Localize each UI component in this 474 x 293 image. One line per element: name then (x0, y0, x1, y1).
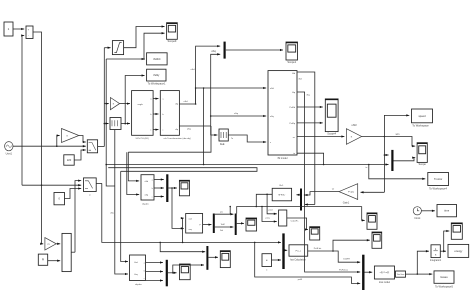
junction speed ref (41, 184, 43, 186)
wire wr output to gain uSM (297, 136, 344, 138)
svg-text:c: c (150, 130, 151, 132)
wire uSd branch up to mux (196, 46, 221, 104)
scope psi (246, 218, 257, 231)
svg-text:Usq: Usq (134, 274, 138, 276)
block energy (448, 244, 469, 257)
svg-text:a: a (144, 263, 145, 265)
svg-text:u[1]^2+u[2]: u[1]^2+u[2] (380, 271, 390, 274)
svg-text:s: s (270, 142, 271, 144)
wires PLL to abc-dq (153, 98, 158, 100)
bundle vertical a (103, 48, 105, 147)
wire 0 to switch2 in3 (65, 189, 82, 199)
subsystem IM model (268, 71, 297, 155)
wire PI gain to relay (56, 243, 60, 245)
wire in2 dq-abc1 (127, 152, 139, 194)
wires demux to mux psi (215, 213, 234, 215)
svg-text:PI: PI (42, 259, 45, 262)
block constant 0 (54, 193, 65, 205)
wire branch down from mux out (172, 188, 184, 228)
svg-text:b: b (152, 188, 153, 190)
wire up to scope8 (444, 231, 450, 251)
wire sum output down to PI gain (33, 32, 43, 244)
wire switch1 out to bundle (98, 146, 105, 148)
gain before PLL (110, 98, 119, 110)
wire psi long line to scope6 (362, 207, 365, 221)
svg-text:wm: wm (396, 133, 400, 136)
sine source Uset (5, 142, 13, 151)
demux psi (213, 214, 215, 234)
block dq-abc 1 (141, 175, 154, 200)
svg-text:a-b Transformation (abc-dq): a-b Transformation (abc-dq) (164, 137, 191, 140)
scope Scope6 (367, 213, 377, 229)
scope Scope7 (372, 232, 382, 248)
relay tall block (62, 233, 71, 271)
svg-text:time: time (444, 209, 449, 213)
svg-text:usq: usq (189, 229, 192, 231)
wire mux to Scope1 (226, 49, 283, 51)
scope Scope1 (286, 42, 298, 64)
to-workspace block thdiiy (147, 69, 166, 81)
svg-text:DisRH: DisRH (343, 258, 350, 260)
wire source to switch1 (13, 145, 86, 147)
svg-text:To Workspace1: To Workspace1 (148, 82, 166, 86)
wire wm into mux2r (384, 154, 388, 156)
svg-text:uSM: uSM (352, 124, 357, 127)
wire mux out to scope mid (168, 187, 177, 189)
svg-text:angle: angle (138, 104, 144, 106)
wire bold flux into mux (102, 183, 281, 242)
wire iSq down to loss mux in2 (305, 195, 361, 272)
scope Scope9 (167, 23, 178, 43)
tag Total loss (396, 271, 406, 277)
wire mux to loss model (365, 271, 373, 273)
wires dq-abc2 to mux (146, 262, 163, 264)
wire uSd to IM model (179, 88, 266, 104)
wire to Scope9 in2 (144, 33, 165, 59)
wire delay2 out up to thdiiy (121, 123, 125, 125)
svg-text:losses: losses (440, 275, 448, 279)
svg-text:Scope9: Scope9 (168, 39, 177, 43)
mux loss inputs (362, 255, 364, 290)
saturation block (112, 41, 123, 55)
wire into left gain (57, 136, 60, 147)
svg-text:wr: wr (293, 136, 296, 139)
block PI2 (38, 254, 47, 265)
scope ib (220, 251, 230, 268)
wire total loss to integrator and losses (406, 251, 429, 274)
scope Scope8 (451, 223, 462, 239)
long wire te / mux input (106, 164, 388, 166)
bundle vertical b (106, 59, 115, 186)
wire into dq-abc2 in2 (115, 130, 128, 274)
wire into thdiiy (125, 76, 144, 125)
scope Scope (417, 143, 427, 167)
wire branch into P calc in1 (183, 218, 184, 242)
svg-text:Uset1: Uset1 (6, 153, 13, 156)
mux ib (206, 246, 208, 270)
wire left gain to switch1 in1 (79, 136, 86, 143)
block e constant (262, 254, 272, 267)
wire gain to PLL angle (120, 103, 130, 105)
wire into Gain1 from wm riser (361, 191, 385, 193)
svg-text:Scope1: Scope1 (287, 60, 296, 64)
to-workspace block Tmotor (428, 173, 449, 186)
wire mux out to scope (168, 272, 177, 274)
wire uSd down to band (203, 88, 205, 165)
clock (413, 207, 421, 215)
svg-text:speed: speed (418, 114, 426, 118)
svg-text:P*u(1): P*u(1) (348, 192, 354, 194)
wire muxpsi2 to scope (237, 222, 244, 224)
wire Gain1 output wr into muxr in1 (305, 192, 340, 195)
svg-text:IM model: IM model (278, 157, 288, 160)
wire unit delay to IM in3 (228, 135, 266, 142)
wire te output (297, 153, 324, 164)
scope Scope4 (325, 99, 338, 135)
wire ref into switch2 in2 (22, 184, 81, 186)
svg-text:M*Rr/Lr: M*Rr/Lr (278, 194, 285, 196)
svg-text:Calc.Rs: Calc.Rs (291, 220, 300, 222)
wire psi return long line (237, 207, 362, 214)
svg-text:c: c (163, 130, 164, 132)
wire uSq to IM model (179, 116, 266, 126)
wire clock to time (421, 210, 435, 212)
svg-text:wr: wr (332, 188, 335, 191)
svg-text:Psi_s: Psi_s (296, 250, 302, 252)
svg-text:Clock: Clock (414, 217, 421, 220)
scope mid uSabc (179, 180, 189, 196)
wire saturation to Scope9 in1 (124, 27, 165, 48)
wire PsiRd to Scope4 (297, 106, 323, 108)
wire psi line drop (229, 207, 231, 215)
block dq transformation PLL (132, 91, 154, 136)
scope bottom uabc (180, 264, 191, 280)
svg-text:thdiiy: thdiiy (153, 73, 160, 77)
wire bold branch to mux ib in1 (160, 242, 205, 251)
wire into gain (104, 103, 109, 105)
svg-text:a: a (152, 180, 153, 182)
sum subsystem block (26, 26, 33, 39)
svg-text:Tmotor: Tmotor (434, 177, 442, 181)
wire PsiRq to Scope4 (297, 122, 323, 124)
long wire mid band2 (108, 168, 257, 172)
wire down from junction 128 (128, 126, 211, 152)
svg-text:220: 220 (67, 158, 72, 162)
block Rs1 (272, 188, 291, 201)
to-workspace block speed (412, 109, 433, 123)
mux bottom uabc (166, 260, 168, 287)
block Integrator1 (431, 245, 440, 258)
long wire psiR bottom (255, 242, 361, 283)
svg-text:Gain1: Gain1 (343, 202, 350, 205)
wire switch2 out (96, 182, 102, 184)
wires dq-abc1 to mux (154, 179, 164, 181)
gain uSM (346, 129, 361, 145)
wire relay out up (71, 251, 75, 253)
wire 220 to switch1 in3 (74, 150, 86, 160)
svg-text:Usd: Usd (134, 262, 138, 264)
svg-text:Integrator1: Integrator1 (430, 259, 442, 262)
block abc-dq transformation (160, 91, 179, 136)
block dq-abc 2 (130, 255, 146, 281)
unit delay block (219, 129, 228, 141)
constant block 1 (4, 22, 13, 36)
wire PLL in2 from delay2 junction (125, 123, 130, 125)
mux psi2 (235, 214, 237, 236)
scope Scope5 (310, 227, 320, 240)
svg-text:To Workspace4: To Workspace4 (429, 186, 447, 190)
svg-text:d/q: d/q (175, 129, 178, 131)
wire feedback up into sum in2 (22, 36, 24, 186)
mux uSabc (166, 174, 168, 202)
wire te down to Tmotor (369, 165, 426, 179)
wire iSq output down (297, 92, 305, 195)
wire uSq branch up to mux (211, 54, 221, 116)
wire PI2 to relay (48, 260, 61, 262)
svg-text:Del: Del (220, 230, 224, 232)
svg-text:c: c (152, 197, 153, 199)
svg-text:hys Calculation: hys Calculation (290, 258, 306, 261)
svg-text:TeM: TeM (221, 224, 225, 226)
wire PsiS out (308, 251, 361, 262)
svg-text:PsiR.ds: PsiR.ds (314, 248, 322, 250)
mux Mux1 (224, 42, 226, 59)
svg-text:Scope4: Scope4 (327, 131, 336, 135)
svg-text:3-Ph PLL(B1): 3-Ph PLL(B1) (135, 138, 149, 140)
wire PsiS riser to scope7 (333, 240, 370, 251)
wire wm up to To Workspace speed (384, 115, 409, 136)
wire iSd output down (297, 72, 315, 205)
wire pwm feedback up to switch2 in1 (75, 181, 81, 253)
wire into saturation (104, 47, 110, 49)
svg-text:DeE: DeE (220, 143, 225, 146)
svg-text:d/q: d/q (175, 104, 178, 106)
wire into dq-abc2 in1 (121, 171, 128, 261)
block constant 220 (64, 155, 74, 165)
svg-text:PsiRd: PsiRd (289, 107, 295, 109)
block loss model (374, 266, 394, 279)
wire constant to sum (13, 28, 24, 30)
wire into Rs1 right side (296, 194, 300, 196)
svg-text:uSq: uSq (211, 49, 216, 53)
block P calculation (186, 214, 203, 234)
wire P to demux (203, 224, 212, 226)
wire Rs1 out to psi line (256, 194, 267, 206)
unit delay 2 (110, 118, 121, 130)
svg-text:Scope: Scope (419, 162, 427, 166)
svg-text:PI: PI (48, 244, 50, 246)
svg-text:PsiR.loss: PsiR.loss (339, 269, 349, 271)
svg-text:dq-abc: dq-abc (135, 284, 143, 286)
svg-text:b: b (144, 271, 145, 273)
svg-text:dq-abc: dq-abc (142, 203, 150, 205)
block time (437, 205, 457, 217)
svg-text:psiR: psiR (298, 279, 303, 281)
wire mux ib to scope ib (208, 256, 218, 258)
svg-text:c: c (144, 278, 145, 280)
wire integrator to energy (440, 250, 446, 252)
svg-text:thd4iC: thd4iC (153, 57, 161, 61)
mux right-fed (300, 189, 302, 211)
wire mux to PsiS block (285, 249, 288, 251)
svg-text:energy: energy (454, 249, 463, 253)
wire into unit delay2 (104, 123, 108, 125)
svg-text:loss model: loss model (379, 282, 390, 284)
wire into muxr in2 from iSd (305, 204, 315, 206)
to-workspace block thd4iC (147, 53, 168, 65)
wire into unit delay (211, 126, 218, 135)
svg-text:usd: usd (189, 218, 192, 220)
svg-text:To Workspace5: To Workspace5 (435, 284, 453, 288)
switch1 (87, 140, 97, 153)
wire into thd4iC (106, 58, 144, 60)
wire Rs1 out to psi calc (267, 194, 277, 214)
block PsiS hys calculation (289, 245, 308, 256)
gain PI (45, 238, 56, 250)
svg-text:Total loss: Total loss (397, 273, 405, 276)
wire calc out to scope5 (287, 218, 308, 230)
wire into calc in2 (262, 207, 277, 222)
block losses (434, 271, 454, 283)
svg-text:uSd: uSd (145, 181, 149, 183)
switch2 (84, 178, 97, 192)
block angle calc (279, 210, 287, 226)
wire branch to mux ib (173, 265, 204, 273)
svg-text:PsiRq: PsiRq (289, 123, 295, 125)
svg-text:uSq: uSq (145, 195, 149, 197)
wire e to mux (272, 259, 281, 261)
wire wm from gain (362, 137, 416, 147)
wire wm down to mux and Gain1 (383, 137, 385, 193)
wire mux to Scope (394, 158, 416, 161)
gain left Uset (62, 129, 79, 143)
mux before Scope (391, 150, 393, 171)
svg-text:To Workspace: To Workspace (412, 124, 429, 128)
mux PsiS inputs (282, 233, 284, 269)
gain Gain1 left pointing (339, 184, 358, 200)
